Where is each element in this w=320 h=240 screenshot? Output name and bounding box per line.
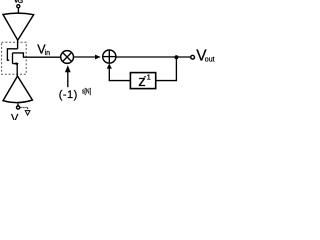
svg-text:V: V bbox=[11, 113, 19, 121]
svg-text:in: in bbox=[45, 50, 51, 57]
svg-text:s[N]: s[N] bbox=[82, 89, 91, 96]
svg-text:1: 1 bbox=[147, 72, 151, 81]
svg-text:G: G bbox=[18, 0, 23, 5]
svg-text:(-1): (-1) bbox=[59, 89, 78, 101]
svg-text:out: out bbox=[205, 57, 215, 64]
svg-text:z: z bbox=[138, 73, 146, 90]
